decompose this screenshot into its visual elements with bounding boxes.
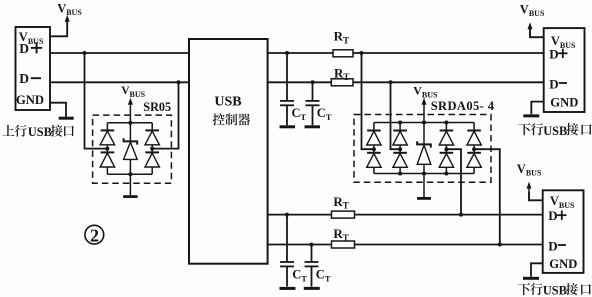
svg-text:USB: USB [543, 124, 567, 138]
svg-text:USB: USB [28, 125, 52, 139]
svg-text:USB: USB [543, 284, 567, 297]
svg-text:SRDA05- 4: SRDA05- 4 [431, 99, 495, 113]
svg-text:GND: GND [16, 93, 44, 107]
svg-text:D: D [19, 41, 29, 56]
svg-text:2: 2 [90, 225, 99, 245]
svg-text:D: D [549, 47, 558, 62]
svg-text:SR05: SR05 [143, 100, 171, 114]
svg-text:D: D [548, 208, 557, 223]
svg-text:D: D [548, 238, 557, 253]
svg-text:D: D [19, 71, 29, 86]
svg-text:GND: GND [549, 257, 577, 271]
svg-text:GND: GND [550, 96, 578, 110]
svg-text:USB: USB [214, 95, 241, 110]
svg-text:D: D [549, 76, 558, 91]
